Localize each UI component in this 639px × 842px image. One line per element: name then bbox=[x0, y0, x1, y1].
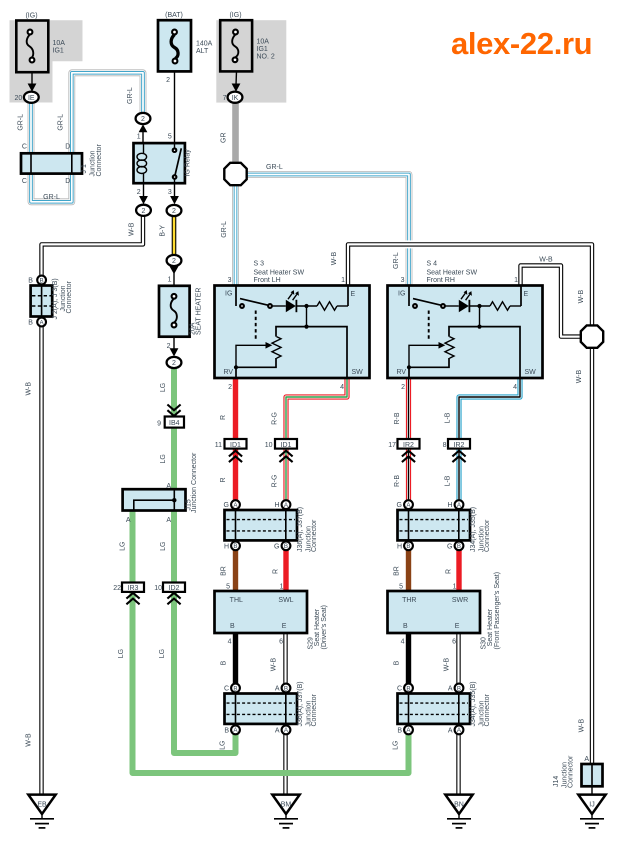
svg-text:B-Y: B-Y bbox=[160, 225, 167, 237]
svg-text:GR: GR bbox=[221, 132, 228, 143]
svg-text:B: B bbox=[284, 543, 288, 550]
svg-text:W-B: W-B bbox=[576, 369, 583, 383]
svg-text:10: 10 bbox=[265, 442, 273, 449]
svg-text:C: C bbox=[22, 144, 27, 151]
svg-text:J36(A), J37(B): J36(A), J37(B) bbox=[297, 681, 304, 726]
svg-text:LG: LG bbox=[160, 383, 167, 392]
svg-text:J 1: J 1 bbox=[81, 164, 88, 173]
svg-text:5: 5 bbox=[168, 134, 172, 141]
svg-text:LG: LG bbox=[118, 649, 125, 658]
svg-text:11: 11 bbox=[215, 442, 222, 449]
svg-text:ID2: ID2 bbox=[169, 585, 180, 592]
svg-text:IG1: IG1 bbox=[53, 48, 64, 55]
svg-text:3: 3 bbox=[228, 277, 232, 284]
svg-text:ID1: ID1 bbox=[281, 442, 292, 449]
svg-text:R-G: R-G bbox=[272, 475, 279, 488]
svg-text:Connector: Connector bbox=[96, 144, 103, 177]
svg-text:GR-L: GR-L bbox=[57, 114, 64, 131]
svg-text:7: 7 bbox=[223, 95, 227, 102]
svg-text:NO. 2: NO. 2 bbox=[257, 54, 275, 61]
svg-text:E: E bbox=[282, 623, 287, 630]
svg-text:B: B bbox=[40, 277, 44, 284]
svg-text:10A: 10A bbox=[257, 39, 270, 46]
svg-text:Connector: Connector bbox=[567, 755, 574, 788]
svg-text:IE: IE bbox=[28, 95, 35, 102]
svg-text:1: 1 bbox=[137, 134, 141, 141]
svg-text:1: 1 bbox=[280, 584, 284, 591]
svg-text:5: 5 bbox=[226, 584, 230, 591]
svg-text:A: A bbox=[275, 685, 280, 692]
svg-text:E: E bbox=[351, 291, 356, 298]
svg-text:BM: BM bbox=[281, 802, 292, 809]
svg-text:10A: 10A bbox=[53, 40, 66, 47]
svg-text:(BAT): (BAT) bbox=[165, 12, 183, 19]
svg-text:W-B: W-B bbox=[26, 382, 33, 396]
svg-text:D: D bbox=[65, 144, 70, 151]
svg-text:B: B bbox=[233, 543, 237, 550]
svg-text:ID1: ID1 bbox=[230, 442, 241, 449]
svg-text:6: 6 bbox=[279, 639, 283, 646]
svg-text:Front RH: Front RH bbox=[427, 277, 455, 284]
svg-text:L-B: L-B bbox=[445, 412, 452, 423]
svg-text:1: 1 bbox=[168, 277, 172, 284]
svg-text:140A: 140A bbox=[196, 41, 213, 48]
svg-text:G: G bbox=[224, 502, 229, 509]
svg-text:B: B bbox=[230, 623, 235, 630]
svg-text:IR3: IR3 bbox=[128, 585, 139, 592]
svg-text:J34(A), J35(B): J34(A), J35(B) bbox=[470, 507, 477, 552]
svg-text:D: D bbox=[65, 178, 70, 185]
svg-text:SWR: SWR bbox=[452, 597, 468, 604]
svg-text:IG1: IG1 bbox=[257, 46, 268, 53]
svg-text:W-B: W-B bbox=[129, 222, 136, 236]
svg-text:BR: BR bbox=[220, 566, 227, 576]
svg-text:B: B bbox=[28, 319, 33, 326]
svg-text:IR2: IR2 bbox=[454, 442, 465, 449]
svg-text:Seat Heater SW: Seat Heater SW bbox=[427, 270, 478, 277]
svg-text:SWL: SWL bbox=[278, 597, 293, 604]
svg-text:J14: J14 bbox=[553, 776, 560, 787]
svg-text:R-G: R-G bbox=[272, 412, 279, 425]
svg-text:LG: LG bbox=[159, 649, 166, 658]
svg-text:W-B: W-B bbox=[271, 657, 278, 671]
svg-text:B: B bbox=[233, 685, 237, 692]
svg-text:A: A bbox=[166, 517, 171, 524]
svg-text:B: B bbox=[221, 660, 228, 665]
svg-text:GR-L: GR-L bbox=[221, 221, 228, 238]
svg-text:A: A bbox=[126, 517, 131, 524]
svg-text:H: H bbox=[224, 543, 229, 550]
svg-text:GR-L: GR-L bbox=[18, 114, 25, 131]
svg-text:R-B: R-B bbox=[394, 475, 401, 487]
svg-text:20: 20 bbox=[15, 95, 23, 102]
svg-text:4: 4 bbox=[340, 384, 344, 391]
svg-text:J 2(A), J 3(B): J 2(A), J 3(B) bbox=[52, 278, 59, 319]
svg-text:C: C bbox=[224, 685, 229, 692]
svg-text:RV: RV bbox=[224, 369, 234, 376]
svg-text:LG: LG bbox=[393, 741, 400, 750]
svg-text:R: R bbox=[220, 415, 227, 420]
svg-text:IB4: IB4 bbox=[169, 420, 180, 427]
svg-text:W-B: W-B bbox=[578, 719, 585, 733]
svg-text:W-B: W-B bbox=[26, 733, 33, 747]
svg-text:EB: EB bbox=[37, 802, 47, 809]
svg-text:A: A bbox=[166, 483, 171, 490]
svg-text:W-B: W-B bbox=[331, 251, 338, 265]
svg-text:GR-L: GR-L bbox=[127, 87, 134, 104]
svg-text:A: A bbox=[275, 727, 280, 734]
svg-text:Connector: Connector bbox=[311, 519, 318, 552]
svg-text:IG Relay: IG Relay bbox=[184, 149, 191, 177]
svg-text:THL: THL bbox=[230, 597, 243, 604]
svg-text:GR-L: GR-L bbox=[266, 164, 283, 171]
svg-text:C: C bbox=[22, 178, 27, 185]
svg-text:B: B bbox=[284, 685, 288, 692]
svg-text:J34(A), J35(B): J34(A), J35(B) bbox=[470, 681, 477, 726]
svg-text:S 4: S 4 bbox=[427, 261, 438, 268]
svg-text:4: 4 bbox=[228, 639, 232, 646]
svg-text:GR-L: GR-L bbox=[393, 252, 400, 269]
svg-text:Connector: Connector bbox=[66, 281, 73, 314]
svg-text:(Front Passenger's Seat): (Front Passenger's Seat) bbox=[494, 572, 501, 650]
svg-text:LG: LG bbox=[160, 454, 167, 463]
svg-text:A: A bbox=[584, 756, 589, 763]
svg-text:(IG): (IG) bbox=[25, 13, 37, 20]
svg-text:J36(A), J37(B): J36(A), J37(B) bbox=[297, 507, 304, 552]
svg-text:2: 2 bbox=[228, 384, 232, 391]
svg-text:G: G bbox=[274, 543, 279, 550]
svg-text:ALT: ALT bbox=[196, 48, 209, 55]
svg-text:2: 2 bbox=[137, 189, 141, 196]
svg-text:LG: LG bbox=[160, 542, 167, 551]
svg-text:Seat Heater SW: Seat Heater SW bbox=[254, 270, 305, 277]
svg-text:THR: THR bbox=[402, 597, 416, 604]
svg-text:(Driver's Seat): (Driver's Seat) bbox=[321, 605, 328, 650]
svg-text:1: 1 bbox=[341, 277, 345, 284]
svg-text:3: 3 bbox=[168, 189, 172, 196]
svg-text:W-B: W-B bbox=[539, 257, 553, 264]
svg-text:IJ: IJ bbox=[589, 802, 594, 809]
svg-text:Junction Connector: Junction Connector bbox=[191, 452, 198, 513]
svg-text:L-B: L-B bbox=[445, 475, 452, 486]
svg-text:alex-22.ru: alex-22.ru bbox=[451, 26, 592, 61]
svg-text:BN: BN bbox=[454, 802, 464, 809]
svg-text:GR-L: GR-L bbox=[43, 194, 60, 201]
svg-text:SW: SW bbox=[352, 369, 364, 376]
svg-text:B: B bbox=[28, 277, 33, 284]
svg-text:Connector: Connector bbox=[311, 694, 318, 727]
svg-text:IK: IK bbox=[232, 95, 239, 102]
svg-text:LG: LG bbox=[120, 542, 127, 551]
svg-text:R: R bbox=[220, 477, 227, 482]
svg-text:R-B: R-B bbox=[394, 412, 401, 424]
svg-text:S 3: S 3 bbox=[254, 261, 265, 268]
svg-text:LG: LG bbox=[220, 741, 227, 750]
svg-text:IR2: IR2 bbox=[403, 442, 414, 449]
svg-text:2: 2 bbox=[167, 343, 171, 350]
svg-text:22: 22 bbox=[113, 585, 121, 592]
svg-text:W-B: W-B bbox=[578, 290, 585, 304]
svg-text:10: 10 bbox=[154, 585, 162, 592]
svg-text:SEAT HEATER: SEAT HEATER bbox=[196, 288, 203, 335]
svg-text:H: H bbox=[274, 502, 279, 509]
svg-text:IG: IG bbox=[225, 291, 232, 298]
svg-text:R: R bbox=[272, 569, 279, 574]
svg-text:2: 2 bbox=[166, 77, 170, 84]
svg-text:17: 17 bbox=[388, 442, 396, 449]
svg-text:9: 9 bbox=[157, 421, 161, 428]
svg-text:(IG): (IG) bbox=[229, 12, 241, 19]
svg-text:8: 8 bbox=[443, 442, 447, 449]
svg-text:B: B bbox=[224, 727, 229, 734]
svg-text:Front LH: Front LH bbox=[254, 277, 281, 284]
